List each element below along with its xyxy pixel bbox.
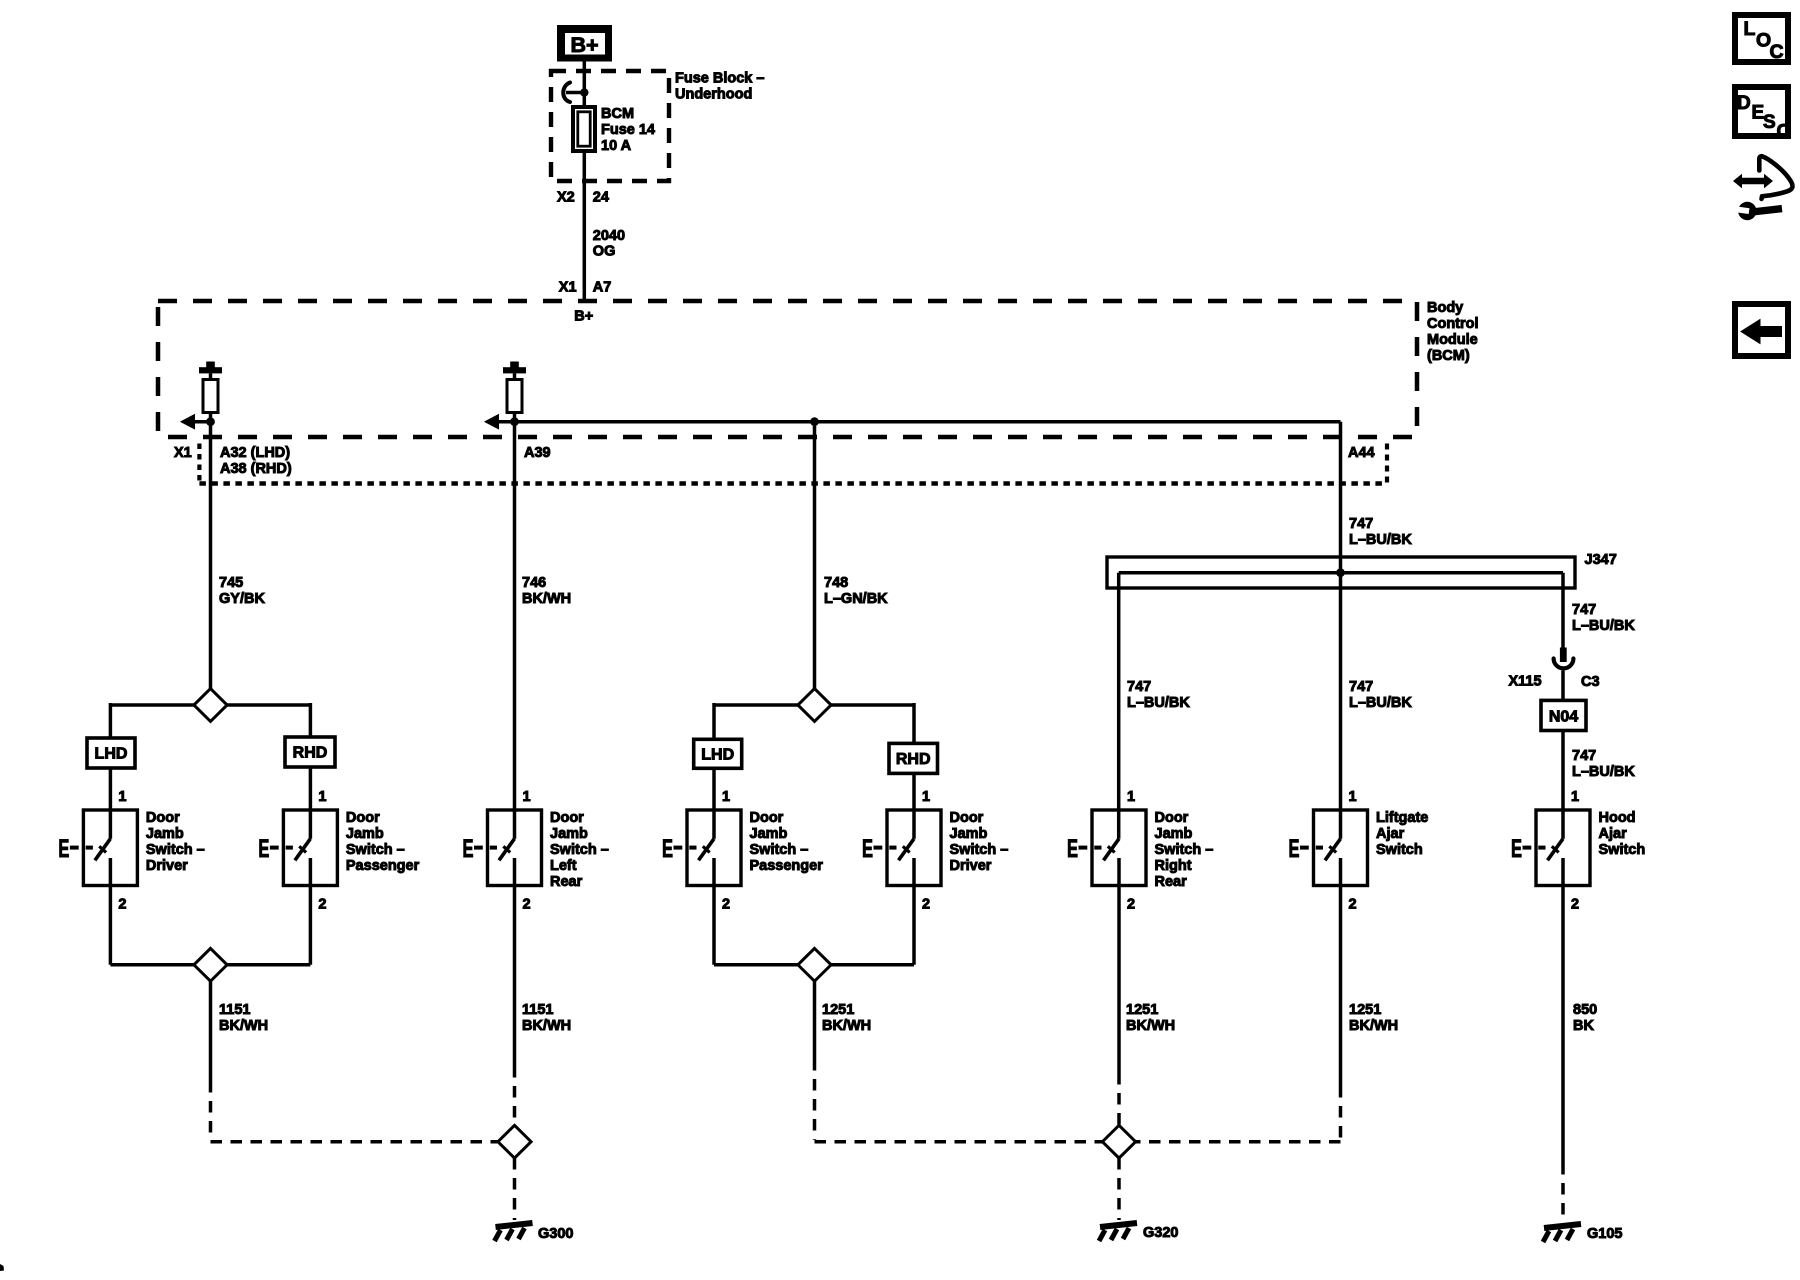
- actuator E linkage: Door Jamb Switch - Passenger: [258, 835, 293, 863]
- body control module (BCM) dashed outline: [158, 301, 1417, 437]
- wire 1251 BK/WH below liftgate switch: [1339, 858, 1343, 1086]
- wire 746 BK/WH (A39 to left rear switch): [513, 422, 517, 839]
- svg-text:Fuse Block –: Fuse Block –: [675, 71, 764, 87]
- label wire 748 L-GN/BK: [824, 575, 888, 607]
- label B+ (battery positive box): [570, 33, 598, 57]
- label wire 747 L-BU/BK (to X115): [1572, 602, 1635, 634]
- pin label A44: [1348, 445, 1375, 461]
- RHD leg wire (middle group): [912, 703, 916, 744]
- svg-text:S: S: [1763, 112, 1776, 133]
- passenger switch pin2 wire (middle): [712, 858, 716, 965]
- svg-text:X1: X1: [174, 445, 192, 461]
- junction dot resistor 1: [206, 417, 215, 426]
- resistor (BCM internal pull-up, A39/A44 output): [503, 362, 526, 424]
- svg-text:Jamb: Jamb: [146, 826, 184, 842]
- svg-text:Door: Door: [750, 810, 784, 826]
- top diamond splice, passenger door group: [798, 689, 831, 722]
- svg-text:G320: G320: [1143, 1225, 1178, 1241]
- actuator E linkage: Door Jamb Switch - Left Rear: [463, 835, 498, 863]
- svg-text:1: 1: [1127, 789, 1135, 805]
- svg-text:2: 2: [1127, 897, 1135, 913]
- label BCM Fuse 14 10 A: [601, 106, 655, 154]
- svg-text:Control: Control: [1427, 316, 1479, 332]
- switch blade: Door Jamb Switch - Left Rear: [499, 839, 515, 861]
- svg-text:L–BU/BK: L–BU/BK: [1572, 764, 1635, 780]
- label LHD (driver group): [95, 746, 128, 763]
- label LHD (passenger group): [701, 746, 734, 763]
- label Door Jamb Switch - Driver: [146, 810, 205, 874]
- pin 1 labels (all switches): [118, 789, 1579, 805]
- svg-text:BK/WH: BK/WH: [219, 1018, 268, 1034]
- switch box outline: Door Jamb Switch - Driver: [887, 810, 941, 886]
- switch box outline: Door Jamb Switch - Passenger: [687, 810, 741, 886]
- svg-text:Ajar: Ajar: [1599, 826, 1628, 842]
- label wire 1251 BK/WH (liftgate): [1349, 1002, 1398, 1034]
- svg-text:745: 745: [219, 575, 243, 591]
- svg-text:L–GN/BK: L–GN/BK: [824, 591, 888, 607]
- svg-text:Door: Door: [950, 810, 984, 826]
- sidebar service icon (double arrow / wrench): [1733, 156, 1792, 220]
- svg-text:1251: 1251: [822, 1002, 854, 1018]
- actuator E linkage: Liftgate Ajar Switch: [1289, 835, 1324, 863]
- svg-text:Door: Door: [1155, 810, 1189, 826]
- svg-text:X2: X2: [557, 190, 575, 206]
- svg-text:746: 746: [522, 575, 546, 591]
- svg-text:747: 747: [1127, 679, 1151, 695]
- svg-text:1251: 1251: [1126, 1002, 1158, 1018]
- svg-text:GY/BK: GY/BK: [219, 591, 265, 607]
- fuse BCM Fuse 14 10A symbol: [573, 107, 595, 151]
- B+ feed wire: [583, 59, 587, 300]
- svg-text:Switch –: Switch –: [550, 842, 609, 858]
- label wire 747 L-BU/BK (A44): [1349, 516, 1412, 548]
- svg-text:C: C: [1777, 122, 1791, 143]
- switch blade: Door Jamb Switch - Passenger: [699, 839, 715, 861]
- svg-text:2: 2: [523, 897, 531, 913]
- driver switch pin2 wire (middle): [912, 858, 916, 965]
- label wire 1151 BK/WH (driver group): [219, 1002, 268, 1034]
- connector X1 dotted line: [199, 481, 1387, 485]
- label RHD (driver group): [293, 745, 328, 762]
- svg-text:L–BU/BK: L–BU/BK: [1572, 618, 1635, 634]
- svg-text:Switch: Switch: [1376, 842, 1423, 858]
- switch box outline: Door Jamb Switch - Left Rear: [488, 810, 542, 886]
- svg-text:OG: OG: [593, 244, 616, 260]
- label B+ (BCM input): [574, 309, 593, 325]
- label wire 2040 OG: [593, 228, 625, 260]
- svg-text:Door: Door: [346, 810, 380, 826]
- ground G300: [495, 1223, 533, 1241]
- clip symbol in fuse block: [563, 83, 588, 103]
- svg-text:Switch –: Switch –: [346, 842, 405, 858]
- driver switch pin2 wire: [109, 858, 113, 965]
- svg-text:E: E: [662, 835, 673, 863]
- label X115: [1509, 674, 1542, 690]
- svg-text:Switch –: Switch –: [750, 842, 809, 858]
- connector X1 dotted stub (left): [197, 444, 201, 484]
- label wire 850 BK (hood): [1573, 1002, 1597, 1034]
- svg-text:E: E: [1067, 835, 1078, 863]
- svg-text:BK: BK: [1573, 1018, 1594, 1034]
- svg-text:Underhood: Underhood: [675, 87, 752, 103]
- svg-text:1: 1: [118, 789, 126, 805]
- splice pack J347 box: [1107, 557, 1575, 588]
- svg-text:G105: G105: [1587, 1226, 1622, 1242]
- top diamond splice, driver door group: [194, 689, 227, 722]
- svg-text:Jamb: Jamb: [550, 826, 588, 842]
- svg-text:747: 747: [1349, 679, 1373, 695]
- svg-text:2: 2: [1349, 897, 1357, 913]
- svg-text:E: E: [463, 835, 474, 863]
- svg-text:2040: 2040: [593, 228, 625, 244]
- svg-text:G300: G300: [538, 1226, 573, 1242]
- svg-text:BK/WH: BK/WH: [522, 1018, 571, 1034]
- svg-text:Switch: Switch: [1599, 842, 1646, 858]
- junction dot resistor 2: [510, 417, 519, 426]
- RHD option box (driver group): [285, 737, 335, 767]
- svg-text:Body: Body: [1427, 300, 1463, 316]
- svg-text:RHD: RHD: [896, 751, 931, 768]
- svg-text:A39: A39: [524, 445, 551, 461]
- LHD option box (passenger group): [694, 739, 742, 768]
- svg-text:1151: 1151: [522, 1002, 553, 1018]
- junction dot A38 branch: [810, 417, 819, 426]
- ground G105: [1543, 1224, 1581, 1242]
- svg-text:24: 24: [593, 190, 609, 206]
- svg-text:C3: C3: [1581, 674, 1600, 690]
- dashed wire into G320: [1117, 1158, 1121, 1220]
- svg-text:747: 747: [1572, 602, 1596, 618]
- sidebar back arrow box: [1735, 304, 1788, 356]
- label Fuse Block - Underhood: [675, 71, 764, 103]
- svg-text:Jamb: Jamb: [1155, 826, 1193, 842]
- RHD leg wire to switch: [309, 766, 313, 839]
- in-line connector N04: [1541, 700, 1586, 730]
- svg-text:BCM: BCM: [601, 106, 634, 122]
- label wire 747 L-BU/BK (liftgate): [1349, 679, 1412, 711]
- svg-text:J347: J347: [1585, 552, 1617, 568]
- label Liftgate Ajar Switch: [1376, 810, 1428, 858]
- svg-text:BK/WH: BK/WH: [1126, 1018, 1175, 1034]
- switch blade: Door Jamb Switch - Driver: [899, 839, 915, 861]
- svg-text:E: E: [1289, 835, 1300, 863]
- RHD option box (passenger group): [889, 743, 938, 773]
- switch blade: Door Jamb Switch - Passenger: [295, 839, 311, 861]
- dashed wire into G300: [513, 1158, 517, 1220]
- sidebar DESC box: [1735, 87, 1791, 143]
- bottom rail wire, driver door group: [110, 963, 310, 967]
- svg-text:N04: N04: [1549, 709, 1578, 726]
- svg-text:1151: 1151: [219, 1002, 250, 1018]
- wire 1151 BK/WH below driver group: [209, 981, 213, 1081]
- RHD leg wire: [309, 703, 313, 738]
- svg-text:A44: A44: [1348, 445, 1375, 461]
- pin label X1 A7: [559, 279, 612, 295]
- svg-text:Rear: Rear: [1155, 874, 1188, 890]
- label wire 1151 BK/WH (left rear): [522, 1002, 571, 1034]
- svg-text:E: E: [862, 835, 873, 863]
- signal arrow at resistor 2: [485, 415, 515, 429]
- svg-text:BK/WH: BK/WH: [822, 1018, 871, 1034]
- svg-text:Switch –: Switch –: [950, 842, 1009, 858]
- svg-text:1: 1: [922, 789, 930, 805]
- LHD option box (driver group): [87, 738, 135, 768]
- svg-text:Door: Door: [146, 810, 180, 826]
- bottom diamond splice, driver door group: [194, 948, 227, 981]
- switch blade: Door Jamb Switch - Driver: [95, 839, 111, 861]
- svg-text:Jamb: Jamb: [750, 826, 788, 842]
- dashed wire to G105: [1561, 1163, 1565, 1221]
- svg-text:1: 1: [1349, 789, 1357, 805]
- svg-text:850: 850: [1573, 1002, 1597, 1018]
- pin label A39: [524, 445, 551, 461]
- svg-text:748: 748: [824, 575, 848, 591]
- pin label A32 (LHD) / A38 (RHD): [220, 445, 292, 477]
- svg-text:BK/WH: BK/WH: [522, 591, 571, 607]
- connector X1 dotted stub (A44 right): [1385, 444, 1389, 484]
- svg-text:B+: B+: [570, 33, 598, 57]
- pin label X2 24: [557, 190, 609, 206]
- svg-text:1: 1: [722, 789, 730, 805]
- svg-text:BK/WH: BK/WH: [1349, 1018, 1398, 1034]
- ground splice diamond G320: [1102, 1125, 1135, 1158]
- svg-text:Left: Left: [550, 858, 577, 874]
- switch blade: Door Jamb Switch - Right Rear: [1104, 839, 1120, 861]
- bottom diamond splice, passenger door group: [798, 948, 831, 981]
- svg-text:10 A: 10 A: [601, 138, 632, 154]
- LHD leg wire to switch (middle group): [712, 768, 716, 839]
- resistor (BCM internal pull-up, X1 A32/A38 output): [199, 362, 222, 424]
- svg-text:RHD: RHD: [293, 745, 328, 762]
- svg-text:Passenger: Passenger: [346, 858, 420, 874]
- dashed wire liftgate to G320: [1135, 1086, 1341, 1142]
- label Body Control Module (BCM): [1427, 300, 1479, 364]
- svg-text:A38 (RHD): A38 (RHD): [220, 461, 292, 477]
- label G105: [1587, 1226, 1622, 1242]
- LHD leg wire: [109, 703, 113, 739]
- actuator E linkage: Door Jamb Switch - Right Rear: [1067, 835, 1102, 863]
- svg-text:Fuse 14: Fuse 14: [601, 122, 655, 138]
- ground G320: [1099, 1223, 1137, 1241]
- switch box outline: Door Jamb Switch - Right Rear: [1092, 810, 1146, 886]
- switch box outline: Hood Ajar Switch: [1536, 810, 1590, 886]
- switch box outline: Door Jamb Switch - Passenger: [283, 810, 337, 886]
- ground splice diamond G300: [498, 1125, 531, 1158]
- svg-text:L: L: [1744, 18, 1756, 40]
- switch blade: Liftgate Ajar Switch: [1325, 839, 1341, 861]
- label Door Jamb Switch - Passenger: [346, 810, 420, 874]
- wire 850 BK below hood ajar switch: [1561, 858, 1565, 1163]
- dashed wire to G320 diamond: [1117, 1073, 1121, 1126]
- wire 747 L-BU/BK (J347 to right rear switch): [1117, 573, 1121, 839]
- bottom rail wire, passenger door group: [714, 963, 914, 967]
- actuator E linkage: Door Jamb Switch - Driver: [58, 835, 92, 863]
- svg-text:2: 2: [318, 897, 326, 913]
- svg-text:Passenger: Passenger: [750, 858, 824, 874]
- wire 1251 BK/WH below right rear switch: [1117, 858, 1121, 1073]
- svg-text:Driver: Driver: [146, 858, 188, 874]
- B+ battery feed box: [557, 25, 612, 62]
- label wire 1251 BK/WH (passenger group): [822, 1002, 871, 1034]
- label Door Jamb Switch - Driver: [950, 810, 1009, 874]
- svg-text:Module: Module: [1427, 332, 1478, 348]
- wire 747 L-BU/BK (A44 down through J347 to liftgate switch): [1339, 422, 1343, 839]
- label Door Jamb Switch - Right Rear: [1155, 810, 1214, 890]
- wire 748 L-GN/BK (A38 to passenger door group): [813, 422, 817, 690]
- svg-text:2: 2: [722, 897, 730, 913]
- svg-text:Switch –: Switch –: [146, 842, 205, 858]
- label wire 746 BK/WH: [522, 575, 571, 607]
- pin 2 labels (all switches): [118, 897, 1579, 913]
- fuse block - underhood dashed outline: [551, 71, 669, 181]
- svg-text:Door: Door: [550, 810, 584, 826]
- label J347: [1585, 552, 1617, 568]
- label wire 1251 BK/WH (right rear): [1126, 1002, 1175, 1034]
- label wire 747 L-BU/BK (below N04): [1572, 748, 1635, 780]
- label N04: [1549, 709, 1578, 726]
- connector X115 C3 female socket: [1554, 659, 1574, 669]
- svg-text:LHD: LHD: [701, 746, 734, 763]
- svg-text:Driver: Driver: [950, 858, 992, 874]
- svg-text:L–BU/BK: L–BU/BK: [1349, 532, 1412, 548]
- switch blade: Hood Ajar Switch: [1548, 839, 1564, 861]
- svg-text:L–BU/BK: L–BU/BK: [1127, 695, 1190, 711]
- passenger switch pin2 wire: [309, 858, 313, 965]
- svg-text:1251: 1251: [1349, 1002, 1381, 1018]
- svg-text:2: 2: [922, 897, 930, 913]
- svg-text:747: 747: [1349, 516, 1373, 532]
- svg-text:A32 (LHD): A32 (LHD): [220, 445, 290, 461]
- svg-text:2: 2: [1571, 897, 1579, 913]
- label wire 747 L-BU/BK (right rear): [1127, 679, 1190, 711]
- svg-text:X115: X115: [1509, 674, 1542, 690]
- LHD leg wire to switch: [109, 767, 113, 839]
- label RHD (passenger group): [896, 751, 931, 768]
- top rail wire, driver door group: [110, 703, 310, 707]
- dashed wire 1151 to G300: [211, 1081, 499, 1142]
- splice J347 internal bus: [1119, 571, 1563, 575]
- svg-text:E: E: [58, 835, 69, 863]
- svg-text:(BCM): (BCM): [1427, 348, 1470, 364]
- label Door Jamb Switch - Passenger: [750, 810, 824, 874]
- svg-text:D: D: [1737, 93, 1751, 114]
- svg-text:E: E: [1511, 835, 1522, 863]
- svg-text:1: 1: [318, 789, 326, 805]
- wire 747 L-BU/BK (N04 to hood ajar switch): [1561, 731, 1565, 839]
- junction dot on J347 bus: [1336, 568, 1345, 577]
- actuator E linkage: Door Jamb Switch - Driver: [862, 835, 897, 863]
- label G320: [1143, 1225, 1178, 1241]
- connector X115 C3 male pin: [1560, 648, 1567, 663]
- label G300: [538, 1226, 573, 1242]
- wire 1251 BK/WH below passenger group: [813, 981, 817, 1059]
- label wire 745 GY/BK: [219, 575, 265, 607]
- svg-text:Rear: Rear: [550, 874, 583, 890]
- pin label X1 (BCM bottom): [174, 445, 192, 461]
- svg-text:Jamb: Jamb: [950, 826, 988, 842]
- wire 1151 BK/WH below left rear switch: [513, 858, 517, 1066]
- signal arrow at resistor 1: [181, 415, 211, 429]
- LHD leg wire (middle group): [712, 703, 716, 740]
- top rail wire, passenger door group: [714, 703, 914, 707]
- wire 747 L-BU/BK (X115 to N04): [1561, 671, 1565, 701]
- svg-text:Ajar: Ajar: [1376, 826, 1405, 842]
- dashed wire 1251 to G320: [815, 1059, 1104, 1142]
- svg-text:2: 2: [118, 897, 126, 913]
- svg-text:1: 1: [523, 789, 531, 805]
- svg-text:Right: Right: [1155, 858, 1192, 874]
- wire 747 L-BU/BK (J347 to X115 connector): [1561, 573, 1565, 649]
- svg-text:A7: A7: [593, 279, 612, 295]
- svg-text:LHD: LHD: [95, 746, 128, 763]
- svg-text:X1: X1: [559, 279, 577, 295]
- svg-text:1: 1: [1571, 789, 1579, 805]
- label C3: [1581, 674, 1600, 690]
- svg-text:C: C: [1770, 41, 1784, 63]
- label Hood Ajar Switch: [1599, 810, 1646, 858]
- RHD leg wire to switch (middle group): [912, 772, 916, 839]
- actuator E linkage: Door Jamb Switch - Passenger: [662, 835, 697, 863]
- svg-text:Jamb: Jamb: [346, 826, 384, 842]
- svg-text:Liftgate: Liftgate: [1376, 810, 1428, 826]
- svg-text:Hood: Hood: [1599, 810, 1636, 826]
- svg-text:Switch –: Switch –: [1155, 842, 1214, 858]
- label Door Jamb Switch - Left Rear: [550, 810, 609, 890]
- dashed wire to G300 diamond: [513, 1066, 517, 1126]
- svg-text:L–BU/BK: L–BU/BK: [1349, 695, 1412, 711]
- svg-text:747: 747: [1572, 748, 1596, 764]
- scan speck bottom-left: [0, 1264, 4, 1271]
- sidebar LOC box: [1735, 15, 1788, 63]
- internal bus wire to A44: [512, 420, 1341, 424]
- actuator E linkage: Hood Ajar Switch: [1511, 835, 1546, 863]
- switch box outline: Liftgate Ajar Switch: [1314, 810, 1368, 886]
- switch box outline: Door Jamb Switch - Driver: [83, 810, 137, 886]
- wire 745 GY/BK (A32 to driver door group): [209, 422, 213, 690]
- svg-text:B+: B+: [574, 309, 593, 325]
- svg-text:E: E: [258, 835, 269, 863]
